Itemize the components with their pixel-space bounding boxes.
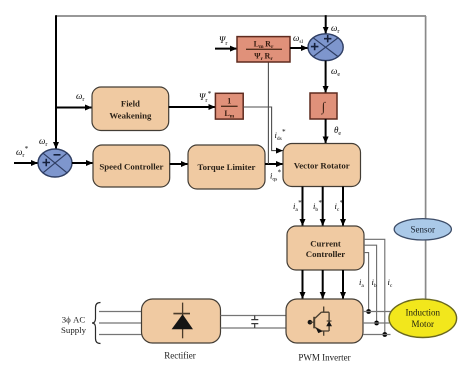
label PWM Inverter xyxy=(298,353,350,363)
wire: CC output b to PWM xyxy=(322,270,324,299)
transistor Q1 IGBT with diode (inverter symbol) xyxy=(308,307,332,336)
wire: VR output i_a* xyxy=(302,187,304,227)
block Rectifier xyxy=(142,299,221,343)
node label Ψr* xyxy=(199,90,211,104)
induction motor (ellipse) xyxy=(389,299,457,337)
node label ωr (feedback into Field Weakening) xyxy=(76,91,84,103)
node label i_ds* xyxy=(275,128,286,142)
svg-text:Current: Current xyxy=(310,239,341,249)
diode D1 (rectifier symbol) xyxy=(172,303,193,339)
block Field Weakening xyxy=(92,87,169,131)
wire: speed feedback top horizontal xyxy=(56,15,426,17)
wire: DC link top xyxy=(221,315,287,317)
wire: summing junction to Speed Controller xyxy=(72,162,93,164)
node label ω_sl xyxy=(293,33,303,45)
sensor (speed sensor ellipse) xyxy=(394,219,451,240)
label 3φ AC Supply xyxy=(61,315,87,336)
wire: ωr drop from top line into slip summing xyxy=(325,15,327,34)
block PWM Inverter xyxy=(286,299,363,343)
summing junction speed error xyxy=(38,149,72,177)
block integrator xyxy=(310,93,337,119)
wire: AC phase line 1 xyxy=(99,311,142,313)
svg-text:Controller: Controller xyxy=(306,249,346,259)
block Torque Limiter xyxy=(188,145,265,189)
block slip gain LmRr/ΨrRr xyxy=(237,37,290,62)
svg-text:Weakening: Weakening xyxy=(109,111,152,121)
brace for AC supply xyxy=(92,303,101,344)
node label Ψr (slip gain input) xyxy=(219,35,227,47)
capacitor C (DC link) xyxy=(251,316,258,329)
wire: slip summing to integrator xyxy=(325,61,327,93)
wire: current feedback i_c xyxy=(364,239,385,334)
wire: VR output i_b* xyxy=(322,187,324,227)
node label i_c xyxy=(388,277,393,289)
wire: speed reference input xyxy=(14,162,38,164)
wire: Ψr input to slip gain block xyxy=(215,48,237,50)
wire: sensor feedback right vertical xyxy=(425,16,427,219)
node label θ_e xyxy=(334,125,341,137)
wire: slip gain to slip summing junction xyxy=(290,47,308,49)
node label i_c* xyxy=(335,199,344,213)
svg-text:PWM Inverter: PWM Inverter xyxy=(298,353,350,363)
svg-text:Vector Rotator: Vector Rotator xyxy=(294,161,350,171)
svg-text:3ϕ AC: 3ϕ AC xyxy=(62,315,86,325)
block Vector Rotator xyxy=(283,144,361,187)
node label ω_e xyxy=(331,66,340,78)
node label i_a xyxy=(359,277,364,289)
wire: tap from i_qs* line up to slip gain block xyxy=(267,62,269,164)
summing junction slip xyxy=(308,34,343,61)
wire: current feedback i_b xyxy=(364,245,377,323)
wire: Torque Limiter to Vector Rotator (i_qs*) xyxy=(265,163,283,165)
wire: integrator to Vector Rotator xyxy=(325,119,327,144)
wire: feedback vertical to speed summing xyxy=(55,15,57,149)
node label i_b* xyxy=(313,199,322,213)
wire: CC output c to PWM xyxy=(342,270,344,299)
block Speed Controller xyxy=(93,145,170,187)
block Current Controller xyxy=(287,226,364,270)
wire: AC phase line 3 xyxy=(99,334,142,336)
svg-text:Supply: Supply xyxy=(61,325,87,335)
wire: motor phase line 3 xyxy=(363,334,391,336)
wire: CC output a to PWM xyxy=(302,270,304,299)
wire: Speed Controller to Torque Limiter xyxy=(170,163,188,165)
wire: sensor to motor vertical xyxy=(425,240,427,300)
node label ωr (into slip summing) xyxy=(331,23,339,35)
junction dot i_a tap xyxy=(366,309,371,314)
node label ωr (at summing junction top) xyxy=(39,136,47,148)
wire: Field Weakening to 1/Lm xyxy=(169,106,216,108)
wire: motor phase line 2 xyxy=(363,322,389,324)
svg-text:Rectifier: Rectifier xyxy=(164,351,195,361)
svg-text:1: 1 xyxy=(227,97,231,106)
node label i_a* xyxy=(293,199,302,213)
wire: motor phase line 1 xyxy=(363,311,391,313)
wire: DC link bottom xyxy=(221,327,287,329)
junction dot i_c tap xyxy=(382,332,387,337)
svg-text:Motor: Motor xyxy=(412,319,435,329)
junction dot i_b tap xyxy=(374,321,379,326)
svg-text:Lm Rr: Lm Rr xyxy=(254,40,274,51)
svg-text:Sensor: Sensor xyxy=(411,225,436,235)
node label ωr* (speed reference) xyxy=(16,145,28,159)
wire: current feedback i_a xyxy=(364,253,369,312)
svg-text:Speed Controller: Speed Controller xyxy=(99,162,163,172)
wire: VR output i_c* xyxy=(342,187,344,227)
block 1/Lm xyxy=(215,93,243,119)
wire: feedback branch to Field Weakening xyxy=(56,107,92,109)
wire: 1/Lm output to Vector Rotator (i_ds*) xyxy=(243,107,283,151)
svg-text:Torque Limiter: Torque Limiter xyxy=(198,162,256,172)
wire: AC phase line 2 xyxy=(99,322,142,324)
svg-text:Induction: Induction xyxy=(406,308,441,318)
svg-text:Field: Field xyxy=(121,99,140,109)
node label i_b xyxy=(372,277,377,289)
node label i_qs* xyxy=(270,169,281,183)
label Rectifier xyxy=(164,351,195,361)
